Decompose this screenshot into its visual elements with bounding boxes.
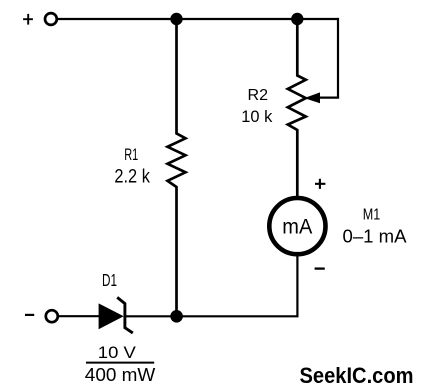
terminal T1 (positive input, open circle) bbox=[45, 13, 57, 25]
svg-text:M1: M1 bbox=[363, 207, 381, 224]
svg-text:mA: mA bbox=[282, 215, 312, 238]
fraction bar of D1 rating bbox=[86, 362, 154, 364]
wire: bottom bus from meter corner to junction bbox=[177, 315, 299, 317]
svg-text:2.2 k: 2.2 k bbox=[114, 166, 150, 188]
wire: wiper arm horizontal into R2 bbox=[316, 96, 339, 98]
wire: from - terminal to diode anode bbox=[59, 315, 101, 317]
wire: meter bottom stem bbox=[296, 254, 298, 316]
potentiometer R2 body (zigzag) with stems bbox=[288, 19, 306, 197]
svg-text:10 k: 10 k bbox=[241, 108, 273, 126]
svg-text:10 V: 10 V bbox=[98, 344, 136, 362]
svg-text:SeekIC.com: SeekIC.com bbox=[300, 363, 414, 388]
wire: top bus from + terminal to top-right corner bbox=[58, 18, 339, 20]
diode D1 anode triangle bbox=[99, 303, 124, 329]
svg-text:R2: R2 bbox=[248, 87, 269, 104]
svg-text:D1: D1 bbox=[102, 270, 117, 290]
wiper arrowhead of potentiometer R2 bbox=[304, 92, 320, 103]
wire: bottom bus from junction to diode cathode bbox=[125, 315, 177, 317]
node A junction dot (top of R1) bbox=[170, 13, 182, 25]
wire: right side down from top bus to wiper arm bbox=[337, 18, 339, 98]
meter M1 circle bbox=[269, 198, 325, 254]
node - input terminal label bbox=[25, 314, 34, 316]
meter - polarity mark bbox=[315, 267, 325, 269]
svg-text:0–1 mA: 0–1 mA bbox=[343, 226, 408, 247]
node C junction dot (bottom of R1) bbox=[170, 310, 183, 323]
resistor R1 body (zigzag) with stems bbox=[168, 19, 186, 316]
svg-text:400 mW: 400 mW bbox=[85, 364, 156, 385]
node + input terminal label bbox=[23, 14, 33, 25]
diode D1 zener cathode bar bbox=[117, 297, 133, 333]
terminal T2 (negative input, open circle) bbox=[46, 310, 58, 322]
node B junction dot (top of R2) bbox=[291, 13, 303, 25]
svg-text:R1: R1 bbox=[124, 146, 138, 164]
meter + polarity mark bbox=[315, 179, 325, 189]
